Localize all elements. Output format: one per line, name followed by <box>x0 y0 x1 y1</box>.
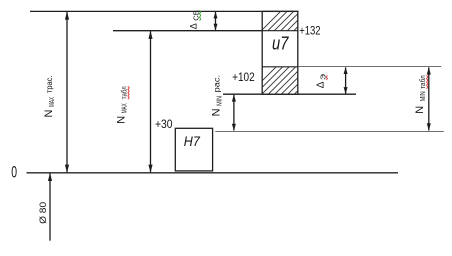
arrow: N_min_calc dimension (double) <box>232 94 236 130</box>
label: diameter 80 (rotated) <box>38 202 49 224</box>
svg-text:Ø 80: Ø 80 <box>38 202 49 224</box>
svg-text:рас.: рас. <box>213 75 222 93</box>
svg-text:MAX: MAX <box>122 103 129 113</box>
svg-text:u7: u7 <box>272 34 289 54</box>
arrow: N_max_calc dimension (double) <box>65 12 69 173</box>
arrow: delta_e dimension (double) <box>344 67 348 94</box>
svg-text:MIN: MIN <box>420 91 427 101</box>
svg-text:СБ: СБ <box>193 10 200 21</box>
arrow: N_min_tabl dimension (double) <box>427 67 431 131</box>
svg-text:трас.: трас. <box>45 76 54 94</box>
svg-text:табл: табл <box>121 86 129 99</box>
svg-text:+102: +102 <box>232 70 255 84</box>
svg-text:табл: табл <box>419 75 427 89</box>
label: N_MIN рас. (rotated) <box>211 75 224 117</box>
label: delta Э (rotated, red squiggle) <box>315 73 327 88</box>
hatch: upper strip (delta sb zone) <box>258 4 327 34</box>
svg-text:MAX: MAX <box>49 97 56 107</box>
svg-text:+132: +132 <box>299 23 321 37</box>
svg-text:N: N <box>43 110 55 118</box>
svg-text:0: 0 <box>11 164 17 182</box>
svg-text:N: N <box>116 116 128 124</box>
wire: line +30 level (gray, to right) <box>215 131 443 133</box>
box: tolerance zone u7 outline <box>262 11 298 94</box>
svg-text:Δ: Δ <box>315 81 326 88</box>
wire: line N_min_calc level <box>223 93 356 95</box>
svg-text:MIN: MIN <box>217 96 224 106</box>
wire: zero line baseline <box>27 172 399 174</box>
wire: line N_max_calc level (top) <box>30 10 298 12</box>
label: N_MAX табл (rotated, red squiggle) <box>116 86 130 124</box>
arrow: N_max_tabl dimension (double) <box>148 31 152 173</box>
svg-text:N: N <box>211 108 223 116</box>
wire: line +102 level (gray, to right) <box>298 66 441 68</box>
svg-text:+30: +30 <box>155 117 173 131</box>
svg-text:N: N <box>414 106 426 114</box>
svg-text:H7: H7 <box>184 133 201 149</box>
hatch: lower strip (delta e zone) <box>245 58 337 98</box>
arrow: diameter 80 leader <box>48 173 52 241</box>
wire: line +132 level <box>113 30 298 32</box>
arrow: delta_sb dimension (double) <box>214 12 218 31</box>
label: N_MAX трас. (rotated) <box>43 76 56 118</box>
label: delta СБ (rotated, green squiggle) <box>188 10 200 29</box>
box: tolerance zone H7 <box>175 128 212 171</box>
svg-text:Δ: Δ <box>188 23 198 29</box>
label: N_MIN табл (rotated, red squiggle) <box>414 75 428 114</box>
